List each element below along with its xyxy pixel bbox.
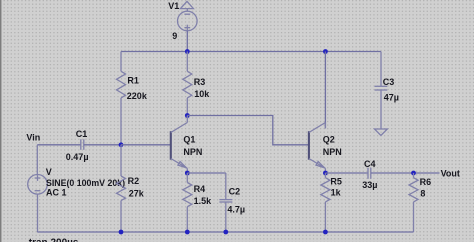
- wire Q1 emitter to C2: [187, 172, 226, 174]
- junction dot R6/Vout node: [411, 171, 416, 176]
- svg-text:Vin: Vin: [26, 132, 40, 142]
- svg-text:10k: 10k: [194, 89, 210, 99]
- capacitor C2: [219, 173, 232, 232]
- svg-text:R3: R3: [194, 77, 206, 87]
- svg-text:27k: 27k: [129, 188, 145, 198]
- wire C4 to Vout: [371, 172, 440, 174]
- svg-text:220k: 220k: [127, 91, 148, 101]
- window left edge: [0, 0, 2, 242]
- wire base node to Q1: [121, 144, 171, 146]
- resistor R4: [183, 173, 192, 232]
- voltage source V1: [178, 11, 198, 31]
- junction dot C2/bottom rail: [223, 230, 228, 235]
- resistor R1: [117, 52, 126, 145]
- junction dot V1/rail: [185, 49, 190, 54]
- svg-text:C1: C1: [76, 129, 88, 139]
- ground symbol (above V1, flipped): [180, 1, 193, 11]
- wire Vin to C1: [37, 144, 81, 146]
- junction dot Q2 collector/rail: [323, 49, 328, 54]
- svg-text:NPN: NPN: [183, 147, 202, 157]
- ground symbol (C3): [375, 129, 388, 135]
- capacitor C4: [368, 168, 371, 179]
- wire V1 to top rail: [186, 31, 188, 52]
- svg-text:V: V: [46, 167, 52, 177]
- capacitor C3: [375, 52, 388, 130]
- wire C1 to base node: [84, 144, 121, 146]
- resistor R2: [117, 145, 126, 232]
- resistor R6: [409, 173, 418, 232]
- svg-text:R2: R2: [128, 176, 140, 186]
- svg-text:AC 1: AC 1: [46, 187, 67, 197]
- svg-text:1.5k: 1.5k: [194, 196, 213, 206]
- wire Q2 emitter to C4: [325, 172, 368, 174]
- capacitor C1: [81, 139, 84, 150]
- junction dot base node: [119, 142, 124, 147]
- resistor R3: [183, 52, 192, 116]
- svg-text:9: 9: [172, 31, 177, 41]
- junction dot Q1 collector node: [185, 113, 190, 118]
- transistor Q2: [309, 123, 326, 174]
- svg-text:V1: V1: [168, 1, 179, 11]
- svg-text:R1: R1: [127, 76, 139, 86]
- junction dot Q2 emitter node: [323, 171, 328, 176]
- voltage source V2: [28, 145, 48, 232]
- svg-text:C2: C2: [229, 187, 241, 197]
- junction dot R5/bottom rail: [323, 230, 328, 235]
- wire bottom rail: [37, 231, 413, 233]
- wire Q1 collector to Q2 base: [187, 116, 309, 145]
- svg-text:C4: C4: [364, 159, 376, 169]
- resistor R5: [321, 173, 330, 232]
- wire top rail left segment: [121, 51, 187, 53]
- svg-text:8: 8: [420, 188, 425, 198]
- wire top rail middle segment: [187, 51, 325, 53]
- wire top rail right segment: [325, 51, 381, 53]
- svg-text:1k: 1k: [331, 188, 342, 198]
- svg-text:33µ: 33µ: [362, 180, 377, 190]
- svg-text:Vout: Vout: [441, 169, 460, 179]
- svg-text:.tran 200µs: .tran 200µs: [26, 238, 79, 242]
- svg-text:NPN: NPN: [323, 147, 342, 157]
- svg-text:Q1: Q1: [183, 135, 195, 145]
- svg-text:R6: R6: [420, 177, 432, 187]
- junction dot R4/bottom rail: [185, 230, 190, 235]
- svg-text:C3: C3: [383, 77, 395, 87]
- junction dot R2/bottom rail: [119, 230, 124, 235]
- svg-text:R5: R5: [330, 176, 342, 186]
- junction dot Q1 emitter node: [185, 171, 190, 176]
- wire Q2 collector vertical: [324, 52, 326, 129]
- svg-text:0.47µ: 0.47µ: [66, 152, 89, 162]
- svg-text:4.7µ: 4.7µ: [227, 205, 245, 215]
- transistor Q1: [171, 116, 188, 174]
- svg-text:Q2: Q2: [323, 135, 335, 145]
- svg-text:47µ: 47µ: [384, 93, 399, 103]
- svg-text:R4: R4: [194, 184, 206, 194]
